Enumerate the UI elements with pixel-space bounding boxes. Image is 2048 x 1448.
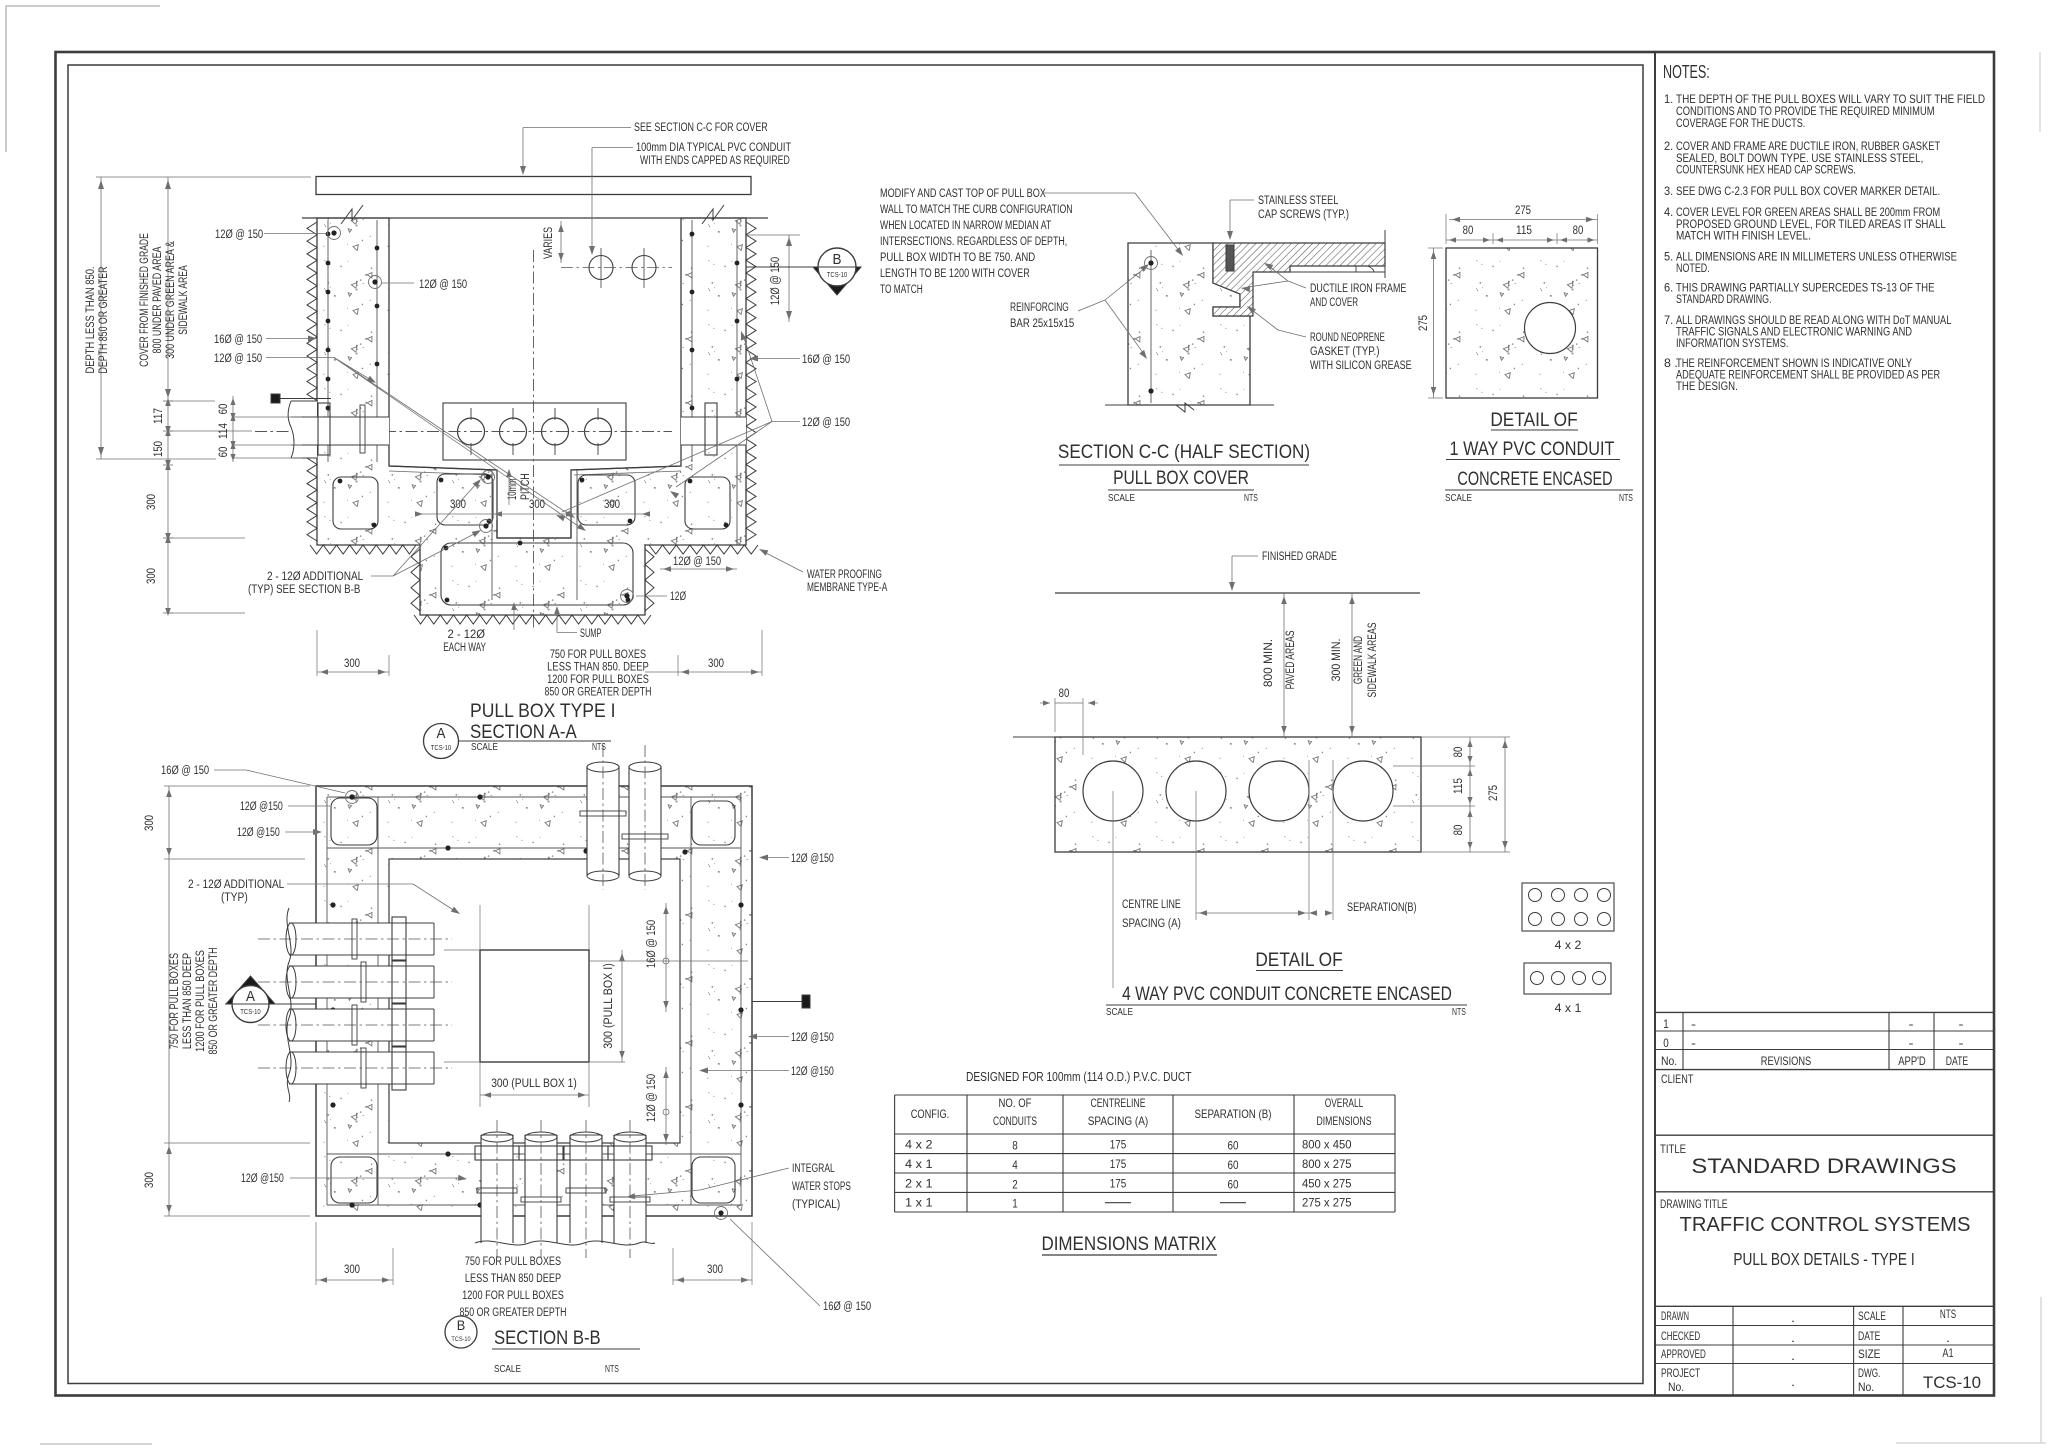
cut mark square left [271,394,280,403]
svg-text:(TYPICAL): (TYPICAL) [792,1199,840,1211]
svg-text:DRAWING TITLE: DRAWING TITLE [1660,1199,1728,1211]
wall top ground line [302,217,768,219]
stirrup right floor [578,475,635,525]
svg-text:CENTRE LINE: CENTRE LINE [1122,899,1181,911]
svg-text:APPROVED: APPROVED [1661,1347,1706,1361]
svg-text:4: 4 [1012,1158,1018,1172]
ductile iron frame hatched [1213,243,1385,316]
svg-text:850 OR GREATER DEPTH: 850 OR GREATER DEPTH [460,1307,567,1319]
svg-text:800 x 450: 800 x 450 [1302,1138,1352,1152]
svg-text:SECTION A-A: SECTION A-A [470,721,577,743]
svg-text:80: 80 [1453,825,1465,836]
svg-text:300: 300 [450,499,466,511]
svg-text:LESS THAN 850 DEEP: LESS THAN 850 DEEP [182,953,194,1050]
svg-text:12Ø @ 150: 12Ø @ 150 [214,353,262,365]
ground line C-C [1105,404,1274,406]
circled rebar callout dots [331,230,336,235]
svg-text:BAR 25x15x15: BAR 25x15x15 [1010,318,1074,330]
svg-text:16Ø @ 150: 16Ø @ 150 [646,920,658,968]
svg-text:SIDEWALK AREAS: SIDEWALK AREAS [1367,622,1379,697]
svg-text:INTERSECTIONS. REGARDLESS OF D: INTERSECTIONS. REGARDLESS OF DEPTH, [880,236,1067,248]
svg-text:2 - 12Ø ADDITIONAL: 2 - 12Ø ADDITIONAL [188,879,285,891]
svg-text:SCALE: SCALE [1858,1309,1886,1323]
section marker B [746,266,818,268]
svg-text:TITLE: TITLE [1660,1144,1686,1156]
spacing dim arrows [1196,912,1309,914]
svg-text:A: A [437,725,446,742]
svg-text:SCALE: SCALE [1108,493,1135,504]
svg-text:WITH SILICON GREASE: WITH SILICON GREASE [1310,360,1412,372]
svg-text:SCALE: SCALE [1445,493,1472,504]
svg-text:CHECKED: CHECKED [1661,1329,1700,1343]
svg-text:4 WAY PVC CONDUIT CONCRETE ENC: 4 WAY PVC CONDUIT CONCRETE ENCASED [1122,983,1452,1005]
svg-text:300 (PULL BOX I): 300 (PULL BOX I) [603,963,615,1049]
sump pit [496,470,498,538]
notes and title panel border [1655,52,1994,1396]
svg-text:12Ø @ 150: 12Ø @ 150 [419,279,467,291]
section B-B plan view [144,745,871,1375]
waterproofing membrane left wall [307,222,317,541]
top pipe couplings [580,811,626,816]
svg-text:60: 60 [1228,1158,1239,1172]
outer wall outline B-B [316,786,752,1216]
svg-text:175: 175 [1110,1138,1127,1152]
dim 800 min paved areas [1283,593,1285,737]
svg-text:SCALE: SCALE [471,742,498,753]
svg-text:DRAWN: DRAWN [1661,1309,1689,1323]
svg-text:MATCH WITH FINISH LEVEL.: MATCH WITH FINISH LEVEL. [1676,229,1811,243]
svg-text:FINISHED GRADE: FINISHED GRADE [1262,551,1337,563]
concrete wall C-C [1128,243,1250,405]
svg-text:CLIENT: CLIENT [1661,1072,1694,1086]
svg-text:2: 2 [1012,1177,1018,1191]
svg-text:CONCRETE ENCASED: CONCRETE ENCASED [1457,468,1612,490]
svg-text:PULL BOX COVER: PULL BOX COVER [1113,467,1249,489]
svg-text:SCALE: SCALE [1106,1007,1133,1018]
svg-text:3.: 3. [1664,184,1673,198]
inner wall outline B-B [389,859,680,1143]
svg-text:NOTED.: NOTED. [1676,261,1710,275]
pipe through right wall [681,417,746,445]
svg-text:60: 60 [218,447,230,458]
svg-text:PITCH: PITCH [520,473,532,500]
svg-text:NTS: NTS [605,1364,619,1375]
waterproofing membrane left leg of base [411,549,420,611]
svg-text:1200 FOR PULL BOXES: 1200 FOR PULL BOXES [547,674,649,686]
circled corner dots [349,794,354,799]
detail 1 way pvc conduit concrete encased [1418,205,1633,504]
svg-text:80: 80 [1573,225,1584,237]
svg-text:12Ø @150: 12Ø @150 [240,801,283,813]
svg-text:NTS: NTS [592,742,606,753]
svg-text:DIMENSIONS MATRIX: DIMENSIONS MATRIX [1041,1233,1216,1255]
svg-text:NO. OF: NO. OF [999,1096,1032,1110]
svg-text:12Ø @ 150: 12Ø @ 150 [770,257,782,305]
svg-text:A1: A1 [1942,1346,1953,1360]
svg-text:800 UNDER PAVED AREA: 800 UNDER PAVED AREA [152,246,164,353]
svg-text:1200 FOR PULL BOXES: 1200 FOR PULL BOXES [462,1290,564,1302]
title cell standard drawings [1655,1191,1994,1193]
svg-text:850 OR GREATER DEPTH: 850 OR GREATER DEPTH [545,687,652,699]
drawing title cell [1655,1305,1994,1307]
svg-text:115: 115 [1453,778,1465,794]
waterproofing membrane right leg of base [645,549,654,611]
svg-text:4 x 2: 4 x 2 [1555,940,1582,952]
svg-text:TCS-10: TCS-10 [451,1336,471,1343]
section A-A pull box cross-section [85,122,887,759]
svg-text:2 - 12Ø ADDITIONAL: 2 - 12Ø ADDITIONAL [267,571,364,583]
svg-text:16Ø @ 150: 16Ø @ 150 [802,354,850,366]
svg-text:.: . [1791,1331,1795,1345]
svg-text:.: . [1791,1375,1795,1389]
stirrup left wall base [333,477,378,529]
svg-text:SEPARATION(B): SEPARATION(B) [1347,902,1417,914]
wall top break marks [341,205,363,224]
dim 275 top [1449,219,1597,221]
ring rebar lines [326,797,328,1205]
dim 80 top-left 4-way [1055,702,1083,704]
svg-text:STAINLESS STEEL: STAINLESS STEEL [1258,195,1339,207]
svg-text:DETAIL OF: DETAIL OF [1255,949,1342,971]
finished grade line [1055,592,1420,594]
wall rebar line C-C [1150,250,1152,403]
client cell [1655,1134,1994,1136]
svg-text:300 (PULL BOX 1): 300 (PULL BOX 1) [491,1078,577,1090]
pull box cover plate [316,177,751,195]
waterproofing membrane base bottom [414,615,651,624]
left dims 117 150 300 300 [163,400,173,402]
svg-text:APP'D: APP'D [1898,1054,1926,1068]
detail 4 way pvc conduit concrete encased [1013,551,1614,1018]
svg-text:100mm DIA TYPICAL PVC CONDUIT: 100mm DIA TYPICAL PVC CONDUIT [636,142,791,154]
svg-text:DEPTH LESS THAN 850.: DEPTH LESS THAN 850. [85,267,97,374]
cut mark square right B-B [802,995,810,1008]
svg-text:5.: 5. [1664,250,1673,264]
svg-text:SECTION C-C (HALF SECTION): SECTION C-C (HALF SECTION) [1058,441,1310,463]
circled dots floor [485,474,490,479]
svg-text:SECTION B-B: SECTION B-B [494,1327,601,1349]
pipes cut wavy line left [287,908,291,1102]
svg-text:No.: No. [1858,1380,1874,1394]
svg-text:275: 275 [1418,315,1430,331]
svg-text:2 x 1: 2 x 1 [905,1176,933,1190]
top pipes B-B [587,766,619,876]
left pipe stub through wall [291,401,317,458]
svg-text:REINFORCING: REINFORCING [1010,302,1069,314]
svg-text:TCS-10: TCS-10 [431,745,451,752]
svg-text:2 - 12Ø: 2 - 12Ø [448,629,485,641]
svg-text:300: 300 [707,1264,723,1276]
svg-text:SCALE: SCALE [494,1364,521,1375]
svg-text:B: B [833,251,842,268]
concrete ring section B-B [316,786,752,1216]
svg-text:12Ø @ 150: 12Ø @ 150 [802,417,850,429]
svg-text:MEMBRANE TYPE-A: MEMBRANE TYPE-A [807,582,887,594]
svg-text:115: 115 [1516,225,1532,237]
slab left grade step [1013,736,1055,738]
bottom pipes B-B [481,1135,513,1243]
svg-text:DETAIL OF: DETAIL OF [1490,409,1577,431]
svg-text:300: 300 [144,815,156,831]
floor rebar dots [338,479,343,484]
svg-text:275 x 275: 275 x 275 [1302,1196,1352,1210]
dim 275 right overall [1504,737,1506,852]
svg-text:(TYP) SEE SECTION B-B: (TYP) SEE SECTION B-B [248,584,361,596]
base block vertical bars [491,470,493,600]
stirrup left floor [437,474,493,525]
svg-text:DESIGNED FOR 100mm (114 O.D.): DESIGNED FOR 100mm (114 O.D.) P.V.C. DUC… [966,1070,1192,1084]
svg-text:WATER PROOFING: WATER PROOFING [807,569,882,581]
svg-text:CAP SCREWS (TYP.): CAP SCREWS (TYP.) [1258,209,1349,221]
svg-text:12Ø @150: 12Ø @150 [791,1066,834,1078]
svg-text:WATER STOPS: WATER STOPS [792,1181,851,1193]
dims 60 114 60 [232,396,234,462]
stirrup base block [441,543,633,605]
svg-text:GREEN AND: GREEN AND [1353,636,1365,684]
svg-text:SPACING (A): SPACING (A) [1088,1114,1149,1128]
svg-text:LENGTH TO BE 1200 WITH COVER: LENGTH TO BE 1200 WITH COVER [880,268,1030,280]
svg-text:WHEN LOCATED IN NARROW MEDIAN: WHEN LOCATED IN NARROW MEDIAN AT [880,220,1051,232]
dim varies [560,221,562,263]
leader modify to wall [1042,192,1135,194]
svg-text:DEPTH 850 OR GREATER: DEPTH 850 OR GREATER [98,267,110,374]
vertical dim 12dia150 right [746,234,800,236]
svg-text:NTS: NTS [1940,1307,1956,1321]
svg-text:800 x 275: 800 x 275 [1302,1157,1352,1171]
svg-text:300: 300 [146,568,158,584]
svg-text:DATE: DATE [1858,1329,1880,1343]
svg-text:7.: 7. [1664,313,1673,327]
svg-text:COVER FROM FINISHED GRADE: COVER FROM FINISHED GRADE [139,233,151,367]
svg-text:No.: No. [1668,1380,1684,1394]
svg-text:175: 175 [1110,1176,1127,1190]
svg-text:150: 150 [153,441,165,457]
stirrup right wall base [685,477,730,529]
svg-text:750 FOR PULL BOXES: 750 FOR PULL BOXES [169,953,181,1050]
svg-text:PULL BOX WIDTH TO BE 750. AND: PULL BOX WIDTH TO BE 750. AND [880,252,1035,264]
left wall rebar lines [327,220,329,462]
svg-text:NTS: NTS [1244,493,1258,504]
svg-text:SEPARATION (B): SEPARATION (B) [1195,1107,1272,1121]
svg-text:750 FOR PULL BOXES: 750 FOR PULL BOXES [550,649,647,661]
cover seam line [1253,271,1385,273]
floor slope lines [389,466,497,470]
concrete mass section A-A [317,218,746,615]
svg-text:60: 60 [1228,1139,1239,1153]
svg-text:16Ø @ 150: 16Ø @ 150 [214,334,262,346]
svg-text:4 x 1: 4 x 1 [905,1157,933,1171]
svg-text:LESS THAN 850 DEEP: LESS THAN 850 DEEP [465,1273,562,1285]
svg-text:12Ø: 12Ø [670,591,686,603]
svg-text:COVERAGE FOR THE DUCTS.: COVERAGE FOR THE DUCTS. [1676,116,1805,130]
left pipes B-B [289,923,434,955]
ring rebar dots [349,794,354,799]
section marker A [226,976,275,1004]
svg-text:175: 175 [1110,1157,1127,1171]
stainless steel cap screw [1226,245,1234,271]
svg-text:SEE SECTION C-C FOR COVER: SEE SECTION C-C FOR COVER [634,122,768,134]
svg-text:SEE DWG C-2.3 FOR PULL BOX COV: SEE DWG C-2.3 FOR PULL BOX COVER MARKER … [1676,184,1940,198]
svg-text:EACH WAY: EACH WAY [443,642,486,654]
conduit circles 4-way [1083,761,1143,821]
svg-text:1.: 1. [1664,92,1673,106]
svg-text:-: - [1691,1017,1696,1031]
svg-text:16Ø @ 150: 16Ø @ 150 [823,1301,871,1313]
svg-text:PAVED AREAS: PAVED AREAS [1285,630,1297,689]
svg-text:DIMENSIONS: DIMENSIONS [1317,1114,1372,1128]
svg-text:LESS THAN 850. DEEP: LESS THAN 850. DEEP [547,662,649,674]
center pull box opening [480,950,589,1062]
svg-text:ROUND NEOPRENE: ROUND NEOPRENE [1310,332,1385,344]
pipe bell right wall [705,403,717,455]
svg-text:275: 275 [1488,785,1500,801]
concrete slab 4-way [1055,737,1421,852]
svg-text:STANDARD DRAWINGS: STANDARD DRAWINGS [1691,1154,1956,1178]
dimensions matrix table [895,1070,1395,1255]
svg-text:DUCTILE IRON FRAME: DUCTILE IRON FRAME [1310,283,1407,295]
svg-text:COUNTERSUNK HEX HEAD CAP SCREW: COUNTERSUNK HEX HEAD CAP SCREWS. [1676,163,1856,177]
svg-text:16Ø @ 150: 16Ø @ 150 [161,765,209,777]
svg-text:4 x 1: 4 x 1 [1555,1003,1582,1015]
left dim 300 bottom B-B [168,1143,170,1216]
bottom dims 300 left right [317,671,389,673]
svg-text:1: 1 [1012,1197,1018,1211]
sheet corner trim mark bottom-left [40,1443,152,1445]
svg-text:300: 300 [529,499,545,511]
svg-text:1 x 1: 1 x 1 [905,1196,933,1210]
left pipe couplings [352,919,357,959]
dims 300 300 300 at sump [420,513,645,515]
left wall rebar dots [326,232,331,237]
pipes cut wavy line bottom [475,1241,655,1245]
pipe coupling bar left [360,405,365,453]
svg-text:.: . [1791,1311,1795,1325]
svg-text:SIDEWALK AREA: SIDEWALK AREA [178,265,190,335]
section C-C half section pull box cover [880,188,1412,504]
svg-text:DWG.: DWG. [1858,1366,1880,1380]
inner border drawing area [68,65,1643,1384]
right dims 80 115 80 275 [1469,737,1471,852]
svg-text:1: 1 [1663,1017,1669,1031]
svg-text:300: 300 [344,1264,360,1276]
svg-text:SUMP: SUMP [580,628,602,640]
svg-text:0: 0 [1663,1036,1669,1050]
cover plate right edge [1384,230,1386,278]
svg-text:300: 300 [604,499,620,511]
svg-text:SPACING (A): SPACING (A) [1122,918,1181,930]
concrete square 1-way [1446,248,1598,398]
left dim interior B-B [168,859,170,1143]
right wall rebar lines [691,220,693,462]
svg-text:1200 FOR PULL BOXES: 1200 FOR PULL BOXES [195,950,207,1052]
svg-text:60: 60 [218,404,230,415]
svg-text:SIZE: SIZE [1858,1347,1880,1361]
left dims cover-from-grade [167,177,169,401]
svg-text:80: 80 [1453,747,1465,758]
conduit circles in bank [458,418,485,445]
config diagram 4x1 [1524,963,1611,994]
svg-text:80: 80 [1059,688,1070,700]
svg-text:ALL DIMENSIONS ARE IN MILLIMET: ALL DIMENSIONS ARE IN MILLIMETERS UNLESS… [1676,250,1957,264]
svg-text:450 x 275: 450 x 275 [1302,1176,1352,1190]
svg-text:80: 80 [1463,225,1474,237]
svg-text:(TYP): (TYP) [221,892,248,904]
svg-text:NOTES:: NOTES: [1663,61,1710,82]
svg-text:300: 300 [708,658,724,670]
svg-text:TCS-10: TCS-10 [1923,1374,1981,1392]
svg-text:850 OR GREATER DEPTH: 850 OR GREATER DEPTH [208,948,220,1055]
svg-text:8: 8 [1012,1139,1018,1153]
svg-text:TCS-10: TCS-10 [827,272,847,279]
svg-text:.: . [1791,1349,1795,1363]
svg-text:800 MIN.: 800 MIN. [1263,639,1275,687]
svg-text:THE DESIGN.: THE DESIGN. [1676,379,1738,393]
right wall rebar dots [690,232,695,237]
svg-text:12Ø @ 150: 12Ø @ 150 [646,1074,658,1122]
svg-text:12Ø @150: 12Ø @150 [791,853,834,865]
svg-text:275: 275 [1515,205,1531,217]
svg-text:INTEGRAL: INTEGRAL [792,1163,835,1175]
conduit circle 1-way [1525,303,1576,354]
svg-text:12Ø @ 150: 12Ø @ 150 [673,556,721,568]
waterproofing membrane under floor left [310,545,416,554]
svg-text:PULL BOX DETAILS - TYPE I: PULL BOX DETAILS - TYPE I [1733,1249,1914,1269]
svg-text:300: 300 [144,1172,156,1188]
svg-text:12Ø @150: 12Ø @150 [791,1032,834,1044]
svg-text:114: 114 [218,422,230,439]
bottom dims 300 B-B [316,1279,393,1281]
sheet corner trim mark top-left [6,6,160,152]
top conduit circles elevation [589,256,613,280]
svg-text:117: 117 [153,408,165,424]
svg-text:TO MATCH: TO MATCH [880,284,923,296]
svg-text:WITH ENDS CAPPED AS REQUIRED: WITH ENDS CAPPED AS REQUIRED [640,155,790,167]
corner stirrups B-B [331,798,377,845]
svg-text:-: - [1691,1036,1696,1050]
centre line spacing leaders [1112,791,1114,988]
svg-text:DATE: DATE [1946,1054,1968,1068]
dim 80 115 80 [1446,239,1598,241]
svg-text:A: A [246,988,255,1005]
svg-text:VARIES: VARIES [543,227,555,259]
svg-text:12Ø @150: 12Ø @150 [241,1173,284,1185]
svg-text:4.: 4. [1664,205,1673,219]
svg-text:B: B [457,1317,466,1333]
svg-text:-: - [1909,1036,1914,1050]
svg-text:750 FOR PULL BOXES: 750 FOR PULL BOXES [465,1256,562,1268]
svg-text:-: - [1959,1036,1964,1050]
svg-text:No.: No. [1661,1054,1677,1068]
svg-text:6.: 6. [1664,281,1673,295]
svg-text:-: - [1959,1017,1964,1031]
svg-text:NTS: NTS [1452,1007,1466,1018]
left dim 300 top B-B [168,786,170,859]
svg-text:WALL TO MATCH THE CURB CONFIGU: WALL TO MATCH THE CURB CONFIGURATION [880,204,1073,216]
svg-text:60: 60 [1228,1177,1239,1191]
svg-text:CENTRELINE: CENTRELINE [1091,1096,1146,1110]
left dims depth [100,177,102,459]
svg-text:MODIFY AND CAST TOP OF PULL BO: MODIFY AND CAST TOP OF PULL BOX [880,188,1046,200]
opening edge extension lines [479,905,481,950]
svg-text:12Ø @ 150: 12Ø @ 150 [215,229,263,241]
svg-text:300 MIN.: 300 MIN. [1331,639,1343,682]
pipe bell left wall [318,403,330,455]
config diagram 4x2 [1522,883,1614,931]
svg-text:PULL BOX TYPE I: PULL BOX TYPE I [470,700,616,722]
svg-text:TRAFFIC CONTROL SYSTEMS: TRAFFIC CONTROL SYSTEMS [1680,1213,1971,1236]
svg-text:AND COVER: AND COVER [1310,297,1358,309]
dim 300 min green areas [1351,593,1353,737]
